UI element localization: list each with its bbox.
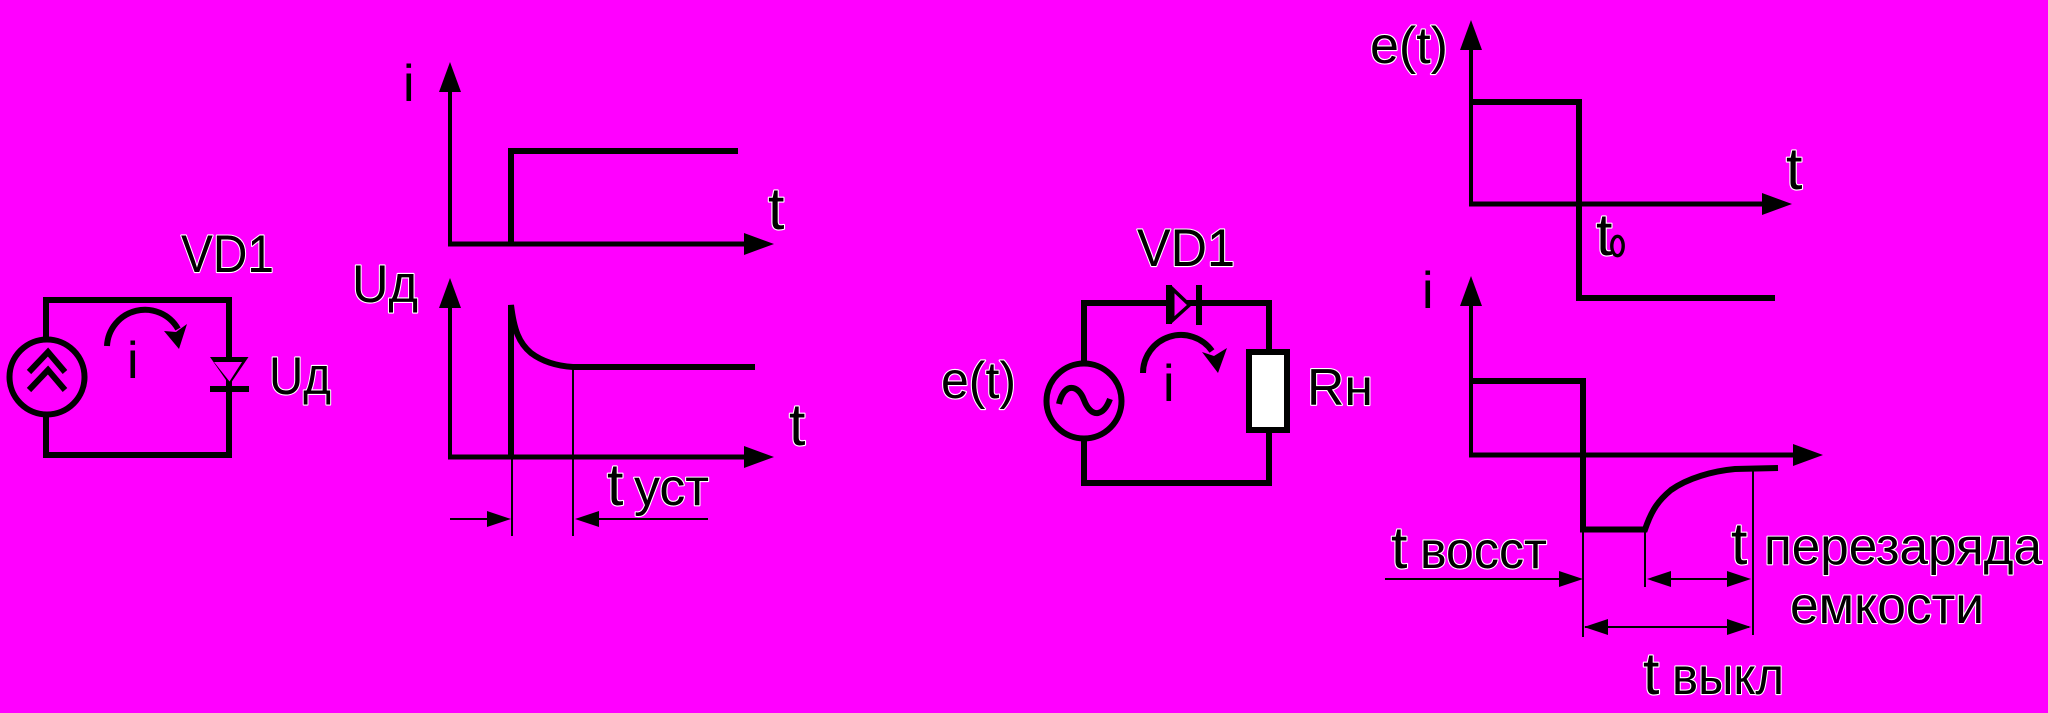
svg-text:Uд: Uд: [269, 347, 331, 406]
svg-text:емкости: емкости: [1790, 577, 1984, 635]
svg-text:VD1: VD1: [1137, 219, 1235, 278]
svg-text:Rн: Rн: [1307, 359, 1373, 417]
graph2 dim arrow right: [575, 511, 708, 527]
svg-text:t: t: [1596, 202, 1612, 268]
svg-text:выкл: выкл: [1672, 648, 1784, 706]
svg-text:i: i: [1163, 355, 1175, 413]
graph4 thin line at recovery end: [1752, 470, 1754, 635]
svg-text:t: t: [607, 452, 623, 518]
graph3 label t0: [1596, 202, 1623, 268]
graph3 x-axis: [1469, 193, 1792, 215]
graph3 y-axis: [1460, 20, 1482, 204]
wire loop left circuit: [46, 300, 229, 455]
graph4 thin line at drop: [1582, 531, 1584, 637]
graph2 y-axis: [439, 278, 461, 458]
svg-text:перезаряда: перезаряда: [1764, 518, 2042, 576]
current arrow i right circuit: [1143, 335, 1227, 373]
graph2 x-axis: [448, 446, 774, 468]
ac source E1: [1047, 364, 1122, 439]
graph1 x-axis: [448, 233, 774, 255]
current source I1: [10, 340, 85, 415]
svg-text:e(t): e(t): [1370, 17, 1448, 75]
svg-text:уст: уст: [634, 459, 709, 517]
graph1 step curve: [511, 151, 738, 246]
svg-text:VD1: VD1: [181, 225, 274, 284]
graph3 square wave: [1471, 102, 1775, 298]
graph4 dim t vosst line: [1385, 571, 1583, 587]
svg-text:i: i: [127, 332, 139, 390]
graph4 x-axis: [1469, 444, 1823, 466]
graph4 current curve: [1471, 381, 1778, 530]
svg-text:e(t): e(t): [941, 352, 1016, 410]
current arrow i left circuit: [107, 310, 187, 349]
resistor Rn: [1249, 352, 1287, 430]
wire loop right circuit: [1084, 303, 1269, 483]
svg-text:t: t: [789, 392, 805, 458]
svg-text:t: t: [1391, 515, 1407, 581]
graph2 decay curve: [511, 305, 755, 459]
graph4 dim bottom double arrow: [1584, 619, 1751, 635]
svg-text:t: t: [1786, 136, 1802, 202]
svg-text:i: i: [1422, 262, 1434, 320]
svg-text:Uд: Uд: [352, 255, 418, 314]
svg-text:t: t: [1731, 511, 1747, 577]
graph4 y-axis: [1460, 276, 1482, 455]
svg-text:восст: восст: [1420, 522, 1547, 580]
svg-text:t: t: [768, 176, 784, 242]
diode VD1 right: [1169, 285, 1199, 325]
diode VD1 left: [210, 357, 249, 389]
graph1 y-axis: [439, 62, 461, 246]
svg-text:t: t: [1643, 641, 1659, 707]
graph4 dim mid double arrow: [1647, 571, 1751, 587]
graph2 thin line at spike: [511, 458, 513, 536]
graph2 dim arrow left: [450, 511, 511, 527]
svg-text:i: i: [403, 55, 415, 113]
graph4 thin line at flat end: [1644, 531, 1646, 587]
graph2 thin line at settle: [572, 368, 574, 536]
